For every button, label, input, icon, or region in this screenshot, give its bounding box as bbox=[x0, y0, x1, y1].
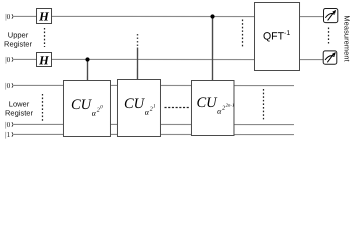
svg-text:CU: CU bbox=[124, 96, 146, 112]
svg-text:|0: |0 bbox=[5, 55, 10, 64]
svg-text:QFT: QFT bbox=[263, 31, 285, 43]
H gate box 1 bbox=[37, 8, 52, 23]
svg-text:|1: |1 bbox=[5, 130, 10, 139]
svg-text:CU: CU bbox=[196, 95, 218, 111]
svg-text:CU: CU bbox=[71, 97, 93, 113]
label Lower Register bbox=[5, 99, 33, 117]
ket |1> label lower register wire 3 bbox=[5, 130, 13, 139]
dotted line between H gates bbox=[44, 28, 46, 47]
wire q1 upper register (bottom H wire) bbox=[14, 58, 254, 60]
ket |0> label lower register wire 2 bbox=[5, 120, 13, 129]
dotted line between measurement boxes bbox=[328, 28, 330, 45]
CU gate box 3 bbox=[191, 81, 234, 136]
wire q0 upper register (top) bbox=[14, 16, 324, 134]
svg-text:Register: Register bbox=[4, 39, 32, 48]
control line CU3 bbox=[211, 17, 213, 81]
H gate box 2 bbox=[37, 52, 52, 67]
svg-text:H: H bbox=[38, 9, 50, 23]
label Upper Register bbox=[4, 30, 32, 48]
svg-text:2n-1: 2n-1 bbox=[226, 104, 235, 109]
control line CU1 bbox=[86, 59, 88, 80]
control dot CU1 on wire q1 bbox=[85, 57, 89, 61]
svg-text:H: H bbox=[38, 53, 50, 67]
dotted elided lower wires right of CU3 bbox=[262, 89, 264, 121]
measurement gauge box 1 bbox=[324, 8, 338, 22]
wire lower register line 1 bbox=[14, 84, 294, 86]
dotted line lower register left bbox=[41, 94, 43, 121]
ellipsis dotted wire between CU2 and CU3 bbox=[164, 106, 189, 108]
control line CU2 solid part bbox=[136, 47, 138, 80]
svg-text:|0: |0 bbox=[5, 81, 10, 90]
ket |0> label wire q1 bbox=[5, 55, 13, 64]
CU gate box 2 bbox=[117, 79, 160, 136]
svg-text:Lower: Lower bbox=[9, 99, 30, 108]
dotted elided wires left of QFT bbox=[242, 20, 244, 48]
control line CU2 dotted continuation bbox=[137, 34, 139, 47]
control dot CU3 on wire q0 bbox=[210, 14, 214, 18]
svg-text:Register: Register bbox=[5, 108, 33, 117]
wire QFT to measurement bottom bbox=[300, 59, 324, 61]
CU gate box 1 bbox=[63, 80, 110, 136]
measurement gauge box 2 bbox=[323, 51, 337, 64]
svg-text:1: 1 bbox=[153, 104, 156, 109]
svg-text:Upper: Upper bbox=[8, 30, 29, 39]
svg-text:|0: |0 bbox=[5, 12, 10, 21]
svg-text:Measurement: Measurement bbox=[343, 15, 352, 61]
ket |0> label wire q0 bbox=[5, 12, 13, 21]
QFT inverse box bbox=[254, 3, 299, 71]
ket |0> label lower register wire 1 bbox=[5, 81, 13, 90]
wire lower register line 2 bbox=[14, 123, 294, 125]
wire lower register line 3 bbox=[14, 133, 294, 135]
svg-text:|0: |0 bbox=[5, 120, 10, 129]
svg-text:-1: -1 bbox=[284, 30, 290, 37]
wire QFT to measurement top bbox=[300, 16, 324, 18]
